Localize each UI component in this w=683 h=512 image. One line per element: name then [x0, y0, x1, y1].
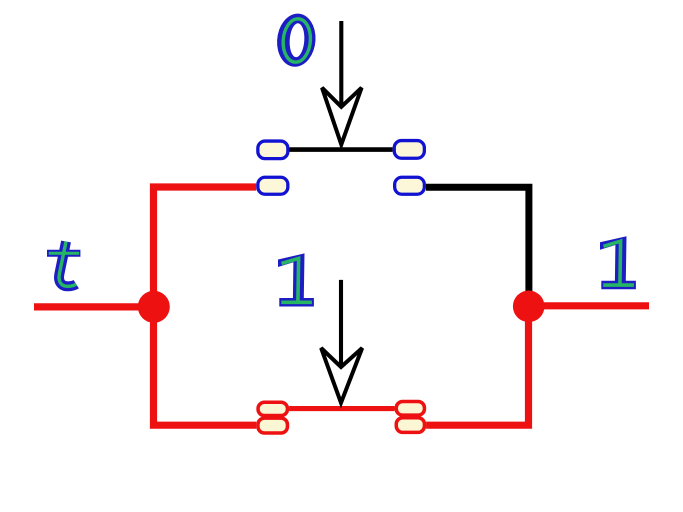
wire right output: [529, 302, 650, 309]
switch S1 contact pin bottom-right: [395, 177, 425, 194]
wire left vertical: [154, 187, 257, 425]
arrow A2 head: [321, 348, 362, 403]
node left junction: [138, 291, 170, 323]
arrow A2 shaft (control of S2): [339, 280, 343, 368]
label value 1 (control of S2): [278, 253, 314, 306]
arrow A1 shaft (control of S1): [339, 21, 343, 108]
label net t (left): [47, 242, 80, 287]
arrow A1 head: [322, 88, 362, 145]
switch S2 lever (red): [289, 406, 394, 411]
switch S1 contact pin bottom-left: [258, 177, 288, 194]
switch S2 contact pin bottom-right: [396, 418, 424, 433]
label value 0 (control of S1): [276, 14, 317, 67]
switch S1 contact pin top-left: [258, 141, 288, 159]
switch S2 contact pin bottom-left: [258, 418, 288, 433]
switch S2 contact pin top-right: [396, 402, 424, 416]
wire left input t: [34, 303, 154, 310]
label value 1 (right output): [600, 236, 636, 289]
wire right black from top switch: [426, 187, 529, 306]
switch S2 contact pin top-left: [258, 402, 287, 415]
switch S1 contact pin top-right: [394, 141, 424, 159]
switch S1 lever (black): [290, 147, 393, 152]
node right junction: [513, 291, 545, 323]
wire right vertical red: [426, 306, 528, 425]
